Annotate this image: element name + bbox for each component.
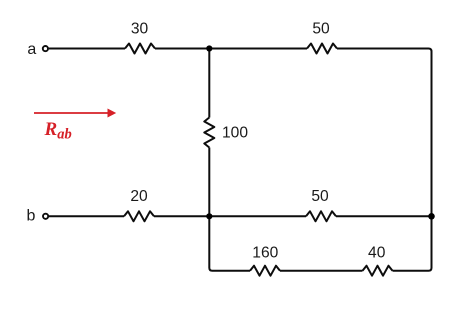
terminal a xyxy=(43,46,48,51)
wire R50 top to right corner and down right side xyxy=(337,49,432,217)
resistor R100 xyxy=(204,118,214,148)
wire R160 to R40 xyxy=(280,270,363,272)
svg-text:50: 50 xyxy=(312,21,330,38)
wire node T to R50 top xyxy=(209,48,307,50)
svg-text:100: 100 xyxy=(222,124,248,141)
terminal b xyxy=(43,214,48,219)
wire a to R30 xyxy=(49,48,125,50)
svg-text:b: b xyxy=(27,208,36,225)
resistor R50 mid xyxy=(306,211,336,221)
wire middle vertical bottom segment xyxy=(208,148,210,217)
svg-text:20: 20 xyxy=(130,188,148,205)
wire middle vertical top segment xyxy=(208,49,210,118)
resistor R50 top xyxy=(307,44,337,54)
svg-text:40: 40 xyxy=(368,244,386,261)
wire R30 to node T xyxy=(155,48,209,50)
wire b to R20 xyxy=(49,215,124,217)
arrow Rab direction xyxy=(34,109,116,118)
resistor R160 xyxy=(250,266,280,276)
wire R50 mid to node R xyxy=(336,215,432,217)
svg-text:50: 50 xyxy=(311,188,329,205)
wire node M to R50 mid xyxy=(209,215,306,217)
svg-text:160: 160 xyxy=(252,244,278,261)
svg-text:Rab: Rab xyxy=(44,119,72,143)
svg-text:30: 30 xyxy=(131,21,149,38)
resistor R30 xyxy=(125,44,155,54)
wire node M down to bottom branch xyxy=(209,216,250,270)
resistor R40 xyxy=(363,266,393,276)
node middle-left junction xyxy=(206,213,212,219)
resistor R20 xyxy=(124,211,154,221)
node top junction xyxy=(206,45,212,51)
wire R20 to node M xyxy=(154,215,209,217)
svg-text:a: a xyxy=(27,41,36,58)
wire right side down to bottom corner xyxy=(393,216,432,270)
node middle-right junction xyxy=(428,213,435,220)
